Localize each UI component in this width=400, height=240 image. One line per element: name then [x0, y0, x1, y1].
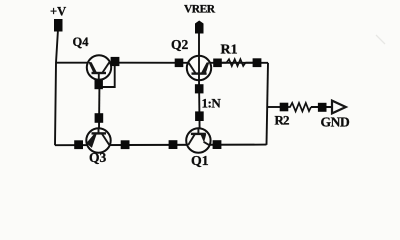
svg-text:GND: GND [321, 115, 350, 130]
svg-text:R2: R2 [275, 112, 289, 127]
svg-text:Q4: Q4 [73, 35, 90, 49]
svg-text:Q3: Q3 [89, 150, 107, 165]
svg-text:+V: +V [50, 5, 66, 19]
svg-text:Q2: Q2 [171, 37, 189, 52]
svg-text:R1: R1 [221, 43, 238, 58]
svg-text:Q1: Q1 [191, 153, 209, 168]
svg-text:VRER: VRER [184, 4, 216, 16]
svg-text:1:N: 1:N [202, 95, 222, 110]
